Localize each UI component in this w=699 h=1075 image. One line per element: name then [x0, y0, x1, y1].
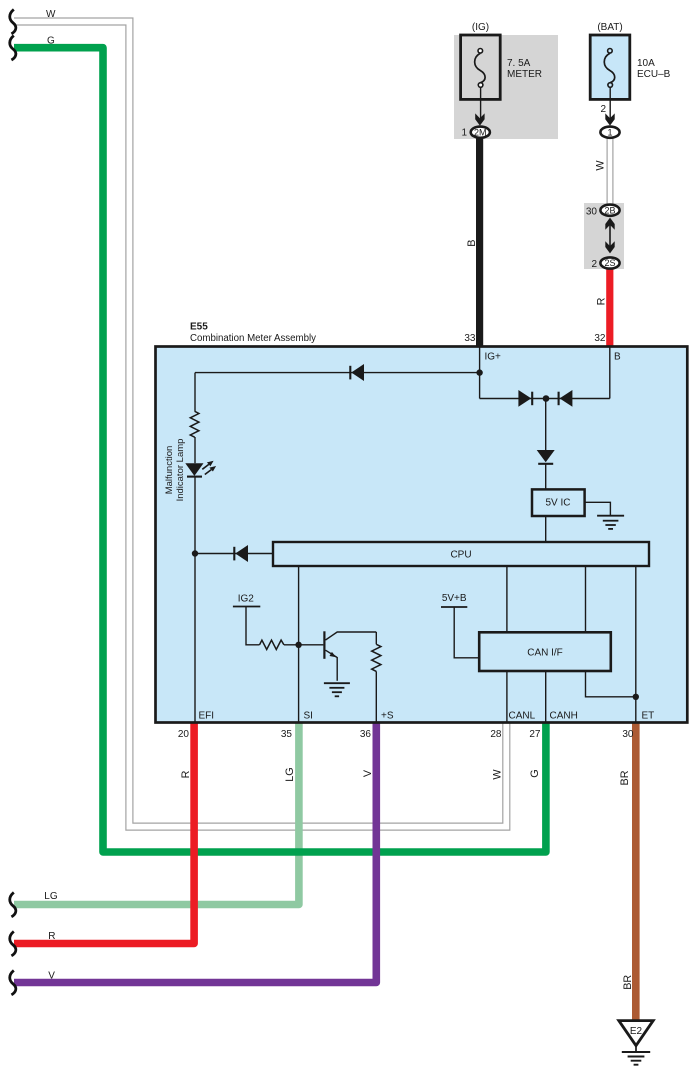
continuation squiggle wire G	[10, 36, 16, 60]
svg-text:R: R	[48, 931, 55, 942]
wire resistor to LED	[194, 437, 196, 463]
svg-text:(IG): (IG)	[472, 22, 489, 33]
svg-text:2: 2	[600, 104, 606, 115]
wire CAN I/F to ET	[586, 671, 636, 697]
svg-text:IG2: IG2	[238, 594, 255, 605]
resistor R2 (base)	[260, 640, 284, 649]
svg-text:W: W	[491, 769, 503, 780]
LED D2 Malfunction Indicator Lamp	[185, 461, 216, 477]
svg-text:20: 20	[178, 729, 190, 740]
fuse 10A ECU-B	[590, 35, 630, 99]
svg-text:1: 1	[461, 127, 467, 138]
gray shading behind IG fuse	[454, 35, 558, 139]
wire BR (brown, ET pin 30 to ground E2)	[632, 723, 640, 1022]
svg-text:E2: E2	[630, 1026, 643, 1037]
wire R (red, to EFI pin 20)	[14, 723, 194, 944]
CAN I/F box	[479, 632, 611, 671]
svg-text:(BAT): (BAT)	[597, 22, 622, 33]
svg-text:+S: +S	[381, 711, 394, 722]
svg-text:B: B	[466, 240, 478, 247]
wire CPU to CAN I/F left	[506, 566, 508, 632]
wire 5V+B to CAN I/F	[454, 607, 479, 658]
transistor Q1	[324, 631, 376, 681]
wire IG+ to MIL branch	[195, 372, 480, 374]
svg-text:ECU–B: ECU–B	[637, 69, 671, 80]
svg-text:R: R	[180, 770, 192, 778]
svg-text:2B: 2B	[604, 205, 615, 215]
wire 5V IC to CPU	[545, 516, 547, 542]
wire ET vertical	[635, 566, 637, 723]
wire B vertical inside box	[609, 346, 611, 399]
svg-text:27: 27	[529, 729, 541, 740]
svg-text:CANL: CANL	[509, 711, 536, 722]
svg-text:5V+B: 5V+B	[442, 593, 467, 604]
wire diode pair row	[480, 398, 610, 400]
wire CPU to MIL branch	[195, 553, 273, 555]
svg-text:30: 30	[622, 729, 634, 740]
svg-text:Malfunction: Malfunction	[164, 446, 175, 495]
wire 5V IC to ground	[585, 502, 610, 515]
svg-text:LG: LG	[284, 767, 296, 781]
wire SI vertical	[298, 566, 300, 723]
wire fuse to connector 2M	[480, 87, 482, 122]
svg-text:30: 30	[586, 206, 598, 217]
connector oval 2S	[600, 257, 619, 268]
wire V (violet, to +S pin 36)	[14, 723, 376, 983]
svg-text:R: R	[596, 297, 608, 305]
svg-text:LG: LG	[44, 891, 58, 902]
svg-text:CANH: CANH	[550, 711, 578, 722]
node MIL / CPU branch	[192, 550, 198, 556]
resistor R1 (MIL series)	[190, 411, 199, 437]
regulator 5V IC	[532, 489, 585, 516]
fuse 7.5A METER	[461, 35, 501, 99]
ground (emitter)	[324, 683, 350, 696]
svg-text:32: 32	[594, 333, 606, 344]
svg-text:36: 36	[360, 729, 372, 740]
diode D1 (on MIL branch, cathode left)	[350, 364, 364, 381]
wire fuse to connector 1	[609, 87, 611, 122]
svg-text:33: 33	[464, 333, 476, 344]
diode D4 (from IG+, cathode right)	[518, 390, 532, 407]
wire LG (light green, to SI pin 35)	[14, 723, 299, 905]
svg-text:7. 5A: 7. 5A	[507, 58, 531, 69]
svg-text:1: 1	[607, 127, 612, 137]
svg-text:BR: BR	[619, 770, 631, 785]
wire CANL vertical	[506, 671, 508, 723]
svg-text:V: V	[48, 971, 55, 982]
svg-text:G: G	[47, 36, 55, 47]
E55 Combination Meter Assembly box	[156, 347, 688, 723]
wire B (black, fuse METER to pin 33)	[476, 131, 483, 346]
power tap 5V+B	[441, 606, 467, 608]
node 5V rail	[543, 395, 550, 402]
svg-text:ET: ET	[642, 711, 655, 722]
svg-text:SI: SI	[304, 711, 313, 722]
ground E2	[619, 1021, 653, 1065]
wire LED to EFI pin	[194, 477, 196, 722]
wire IG+ vertical inside box	[479, 346, 481, 399]
svg-text:CPU: CPU	[450, 550, 471, 561]
resistor R3 (+S pull)	[372, 632, 381, 723]
node SI / base	[295, 642, 301, 648]
wire R (red, connector 2S to pin 32)	[606, 266, 613, 346]
svg-text:B: B	[614, 352, 621, 363]
svg-text:35: 35	[281, 729, 293, 740]
svg-text:E55: E55	[190, 322, 208, 333]
svg-text:V: V	[362, 769, 374, 777]
svg-text:EFI: EFI	[199, 711, 215, 722]
wire CPU to CAN I/F right	[585, 566, 587, 632]
ground (5V IC)	[597, 516, 624, 529]
svg-text:METER: METER	[507, 69, 542, 80]
power tap IG2	[233, 606, 260, 608]
wire IG2 down and right	[246, 607, 260, 645]
diode D3 (CPU to MIL, cathode left)	[234, 545, 248, 562]
svg-text:IG+: IG+	[485, 352, 502, 363]
svg-text:BR: BR	[622, 975, 634, 990]
svg-text:Indicator Lamp: Indicator Lamp	[175, 439, 186, 502]
continuation squiggle wire LG	[10, 892, 16, 916]
svg-text:CAN I/F: CAN I/F	[527, 648, 563, 659]
wire resistor to base	[284, 644, 324, 646]
svg-text:2S: 2S	[604, 258, 615, 268]
svg-text:2: 2	[591, 259, 597, 270]
wire G (green, from top-left to CANH pin 27)	[14, 48, 546, 852]
CPU box	[273, 542, 649, 566]
connector oval 2B	[600, 205, 619, 216]
svg-text:28: 28	[490, 729, 502, 740]
svg-text:W: W	[46, 9, 56, 20]
continuation squiggle wire R	[10, 931, 16, 955]
wire CANH vertical	[545, 671, 547, 723]
svg-text:Combination Meter Assembly: Combination Meter Assembly	[190, 333, 316, 344]
svg-text:G: G	[529, 769, 541, 777]
gray shading behind connector 2B/2S	[584, 203, 624, 269]
svg-text:W: W	[594, 160, 606, 171]
svg-text:2M: 2M	[474, 127, 487, 137]
wire W (white, from top-left to CANL pin 28)	[14, 22, 506, 827]
diode D5 (from B, cathode left)	[559, 390, 573, 407]
diode D6 (series to 5V IC, cathode down)	[537, 450, 555, 489]
node IG+ tap	[476, 369, 482, 375]
svg-text:10A: 10A	[637, 58, 655, 69]
connector oval 1	[600, 127, 619, 138]
junction arrows between 2B and 2S	[605, 218, 614, 254]
connector arrow into 2M	[475, 113, 484, 125]
continuation squiggle wire W	[10, 9, 16, 33]
wire 5V rail down	[545, 399, 547, 451]
continuation squiggle wire V	[10, 970, 16, 994]
connector arrow into 1	[605, 113, 614, 125]
label Malfunction Indicator Lamp	[164, 439, 186, 502]
wire MIL vertical	[194, 373, 196, 412]
connector oval 2M	[471, 127, 490, 138]
node ET	[633, 694, 639, 700]
svg-text:5V IC: 5V IC	[545, 498, 570, 509]
wire W (white, connector 1 to 2B)	[607, 139, 614, 206]
